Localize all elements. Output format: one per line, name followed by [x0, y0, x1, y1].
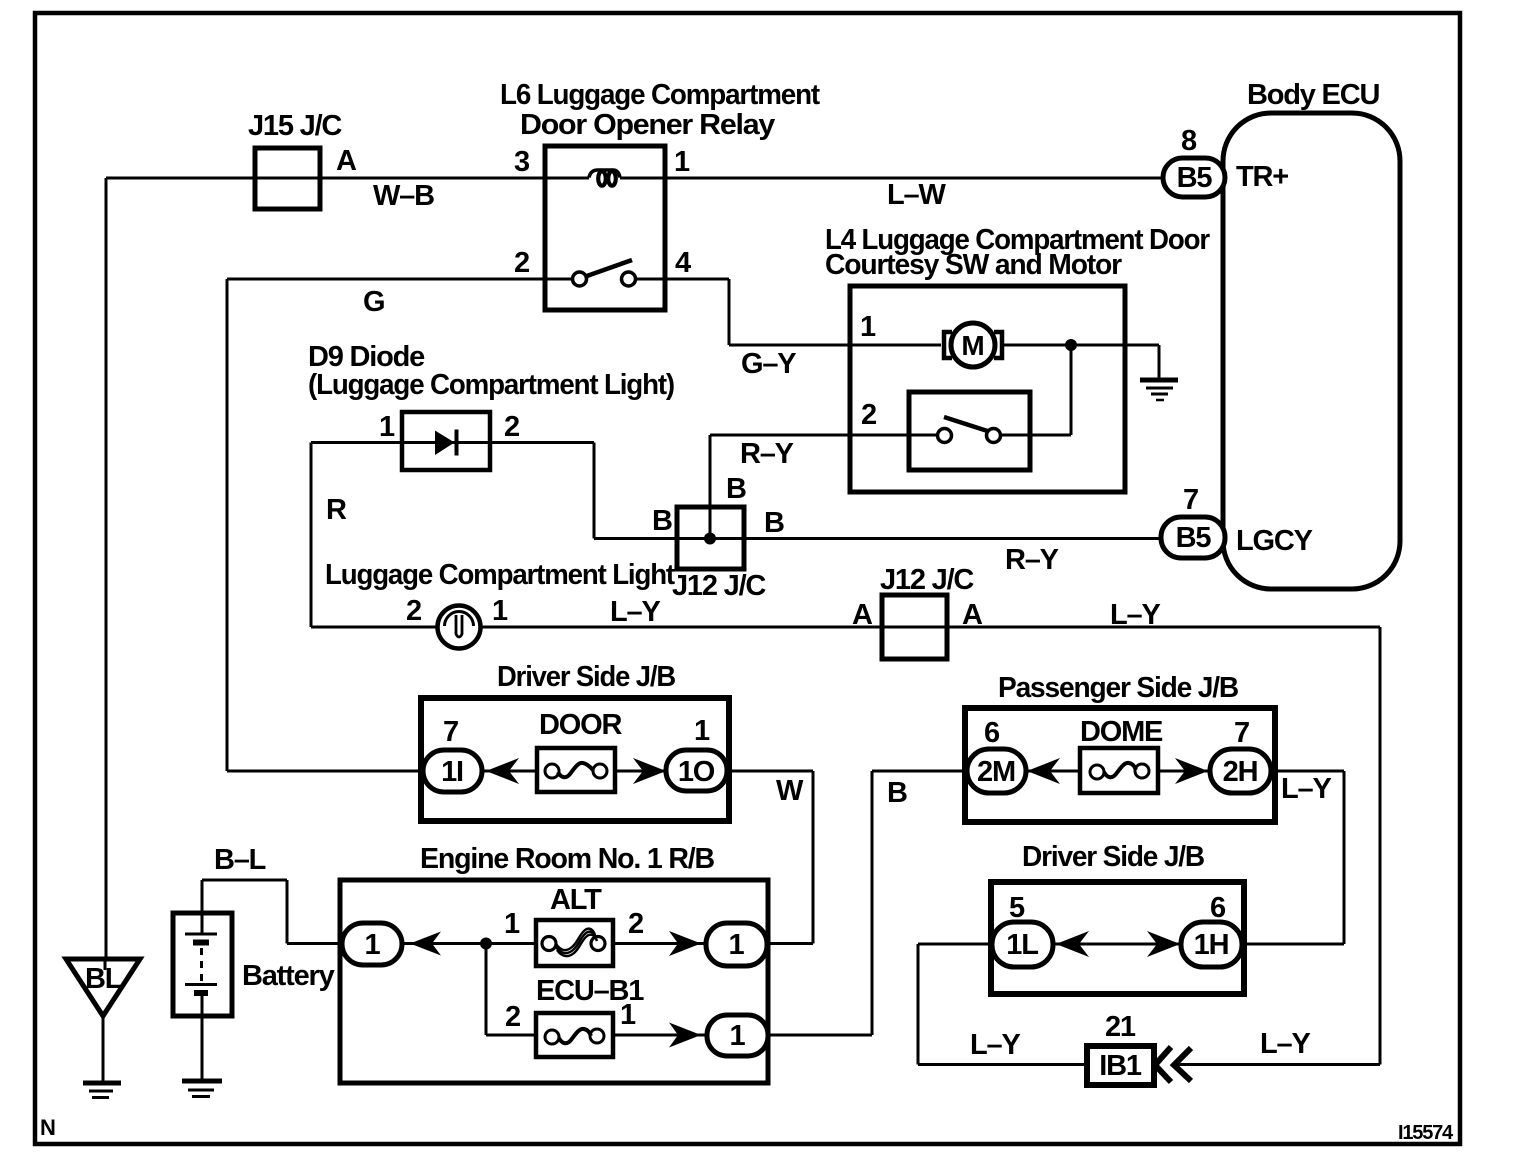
svg-text:J12 J/C: J12 J/C	[880, 564, 974, 596]
svg-text:1: 1	[729, 929, 745, 961]
svg-text:8: 8	[1181, 125, 1197, 157]
svg-text:6: 6	[984, 717, 1000, 749]
svg-text:1H: 1H	[1194, 929, 1229, 961]
svg-text:Luggage Compartment Light: Luggage Compartment Light	[325, 559, 675, 591]
svg-text:1: 1	[674, 146, 690, 178]
svg-text:3: 3	[514, 146, 530, 178]
svg-text:1: 1	[730, 1020, 746, 1052]
svg-text:2M: 2M	[977, 756, 1015, 788]
svg-text:L–Y: L–Y	[1110, 599, 1160, 631]
svg-text:B: B	[726, 473, 746, 505]
svg-text:1: 1	[860, 311, 876, 343]
svg-text:W–B: W–B	[373, 180, 434, 212]
svg-text:Body ECU: Body ECU	[1247, 79, 1379, 111]
svg-text:I15574: I15574	[1398, 1122, 1454, 1144]
svg-text:R–Y: R–Y	[1005, 544, 1059, 576]
svg-text:W: W	[776, 775, 804, 807]
svg-text:5: 5	[1009, 892, 1025, 924]
svg-text:6: 6	[1210, 892, 1226, 924]
svg-text:1: 1	[365, 929, 381, 961]
svg-text:J15 J/C: J15 J/C	[248, 110, 342, 142]
svg-text:4: 4	[675, 247, 691, 279]
svg-text:G–Y: G–Y	[741, 348, 796, 380]
svg-text:N: N	[40, 1115, 55, 1140]
svg-text:2: 2	[505, 1001, 520, 1033]
svg-text:Door Opener Relay: Door Opener Relay	[520, 109, 775, 141]
svg-text:2: 2	[504, 411, 519, 443]
svg-text:Engine Room No. 1 R/B: Engine Room No. 1 R/B	[420, 843, 714, 875]
svg-text:L–Y: L–Y	[610, 596, 660, 628]
svg-text:B: B	[887, 777, 907, 809]
svg-text:Driver Side J/B: Driver Side J/B	[497, 661, 675, 693]
svg-text:BL: BL	[85, 963, 122, 995]
svg-text:B5: B5	[1176, 522, 1212, 554]
svg-text:ALT: ALT	[550, 884, 602, 916]
svg-text:Passenger Side J/B: Passenger Side J/B	[998, 672, 1238, 704]
svg-text:Courtesy SW and Motor: Courtesy SW and Motor	[825, 249, 1122, 281]
svg-text:M: M	[961, 330, 984, 361]
svg-text:J12 J/C: J12 J/C	[672, 570, 766, 602]
svg-text:L6 Luggage Compartment: L6 Luggage Compartment	[500, 79, 820, 111]
svg-text:21: 21	[1105, 1011, 1136, 1043]
svg-text:R: R	[326, 494, 347, 526]
svg-text:1: 1	[694, 715, 710, 747]
svg-text:B5: B5	[1177, 162, 1213, 194]
svg-text:2: 2	[628, 908, 643, 940]
svg-text:7: 7	[1234, 717, 1249, 749]
svg-text:2H: 2H	[1223, 756, 1258, 788]
svg-text:TR+: TR+	[1236, 161, 1288, 193]
svg-text:A: A	[962, 599, 983, 631]
svg-text:L–Y: L–Y	[1281, 773, 1331, 805]
svg-text:2: 2	[406, 595, 421, 627]
svg-text:1: 1	[620, 999, 636, 1031]
svg-text:LGCY: LGCY	[1236, 525, 1313, 557]
svg-text:1L: 1L	[1006, 929, 1038, 961]
svg-text:2: 2	[514, 247, 529, 279]
svg-text:G: G	[363, 286, 384, 318]
svg-text:L–W: L–W	[887, 179, 946, 211]
svg-text:R–Y: R–Y	[740, 438, 794, 470]
svg-text:DOOR: DOOR	[539, 709, 622, 741]
svg-text:A: A	[336, 145, 357, 177]
svg-text:L–Y: L–Y	[1260, 1028, 1310, 1060]
svg-text:Driver Side J/B: Driver Side J/B	[1022, 841, 1204, 873]
svg-text:7: 7	[1183, 484, 1198, 516]
svg-text:(Luggage Compartment Light): (Luggage Compartment Light)	[308, 369, 675, 401]
svg-text:1: 1	[492, 595, 508, 627]
svg-text:B: B	[764, 507, 784, 539]
svg-text:1: 1	[379, 411, 395, 443]
svg-text:1I: 1I	[441, 756, 463, 788]
svg-text:B–L: B–L	[214, 844, 266, 876]
svg-text:L–Y: L–Y	[970, 1029, 1020, 1061]
svg-text:1: 1	[504, 908, 520, 940]
svg-text:Battery: Battery	[242, 960, 335, 992]
svg-text:IB1: IB1	[1099, 1050, 1142, 1082]
svg-text:7: 7	[443, 716, 458, 748]
svg-text:1O: 1O	[678, 756, 715, 788]
svg-text:A: A	[852, 599, 873, 631]
svg-text:2: 2	[861, 399, 876, 431]
svg-text:B: B	[652, 505, 672, 537]
svg-text:DOME: DOME	[1080, 716, 1163, 748]
